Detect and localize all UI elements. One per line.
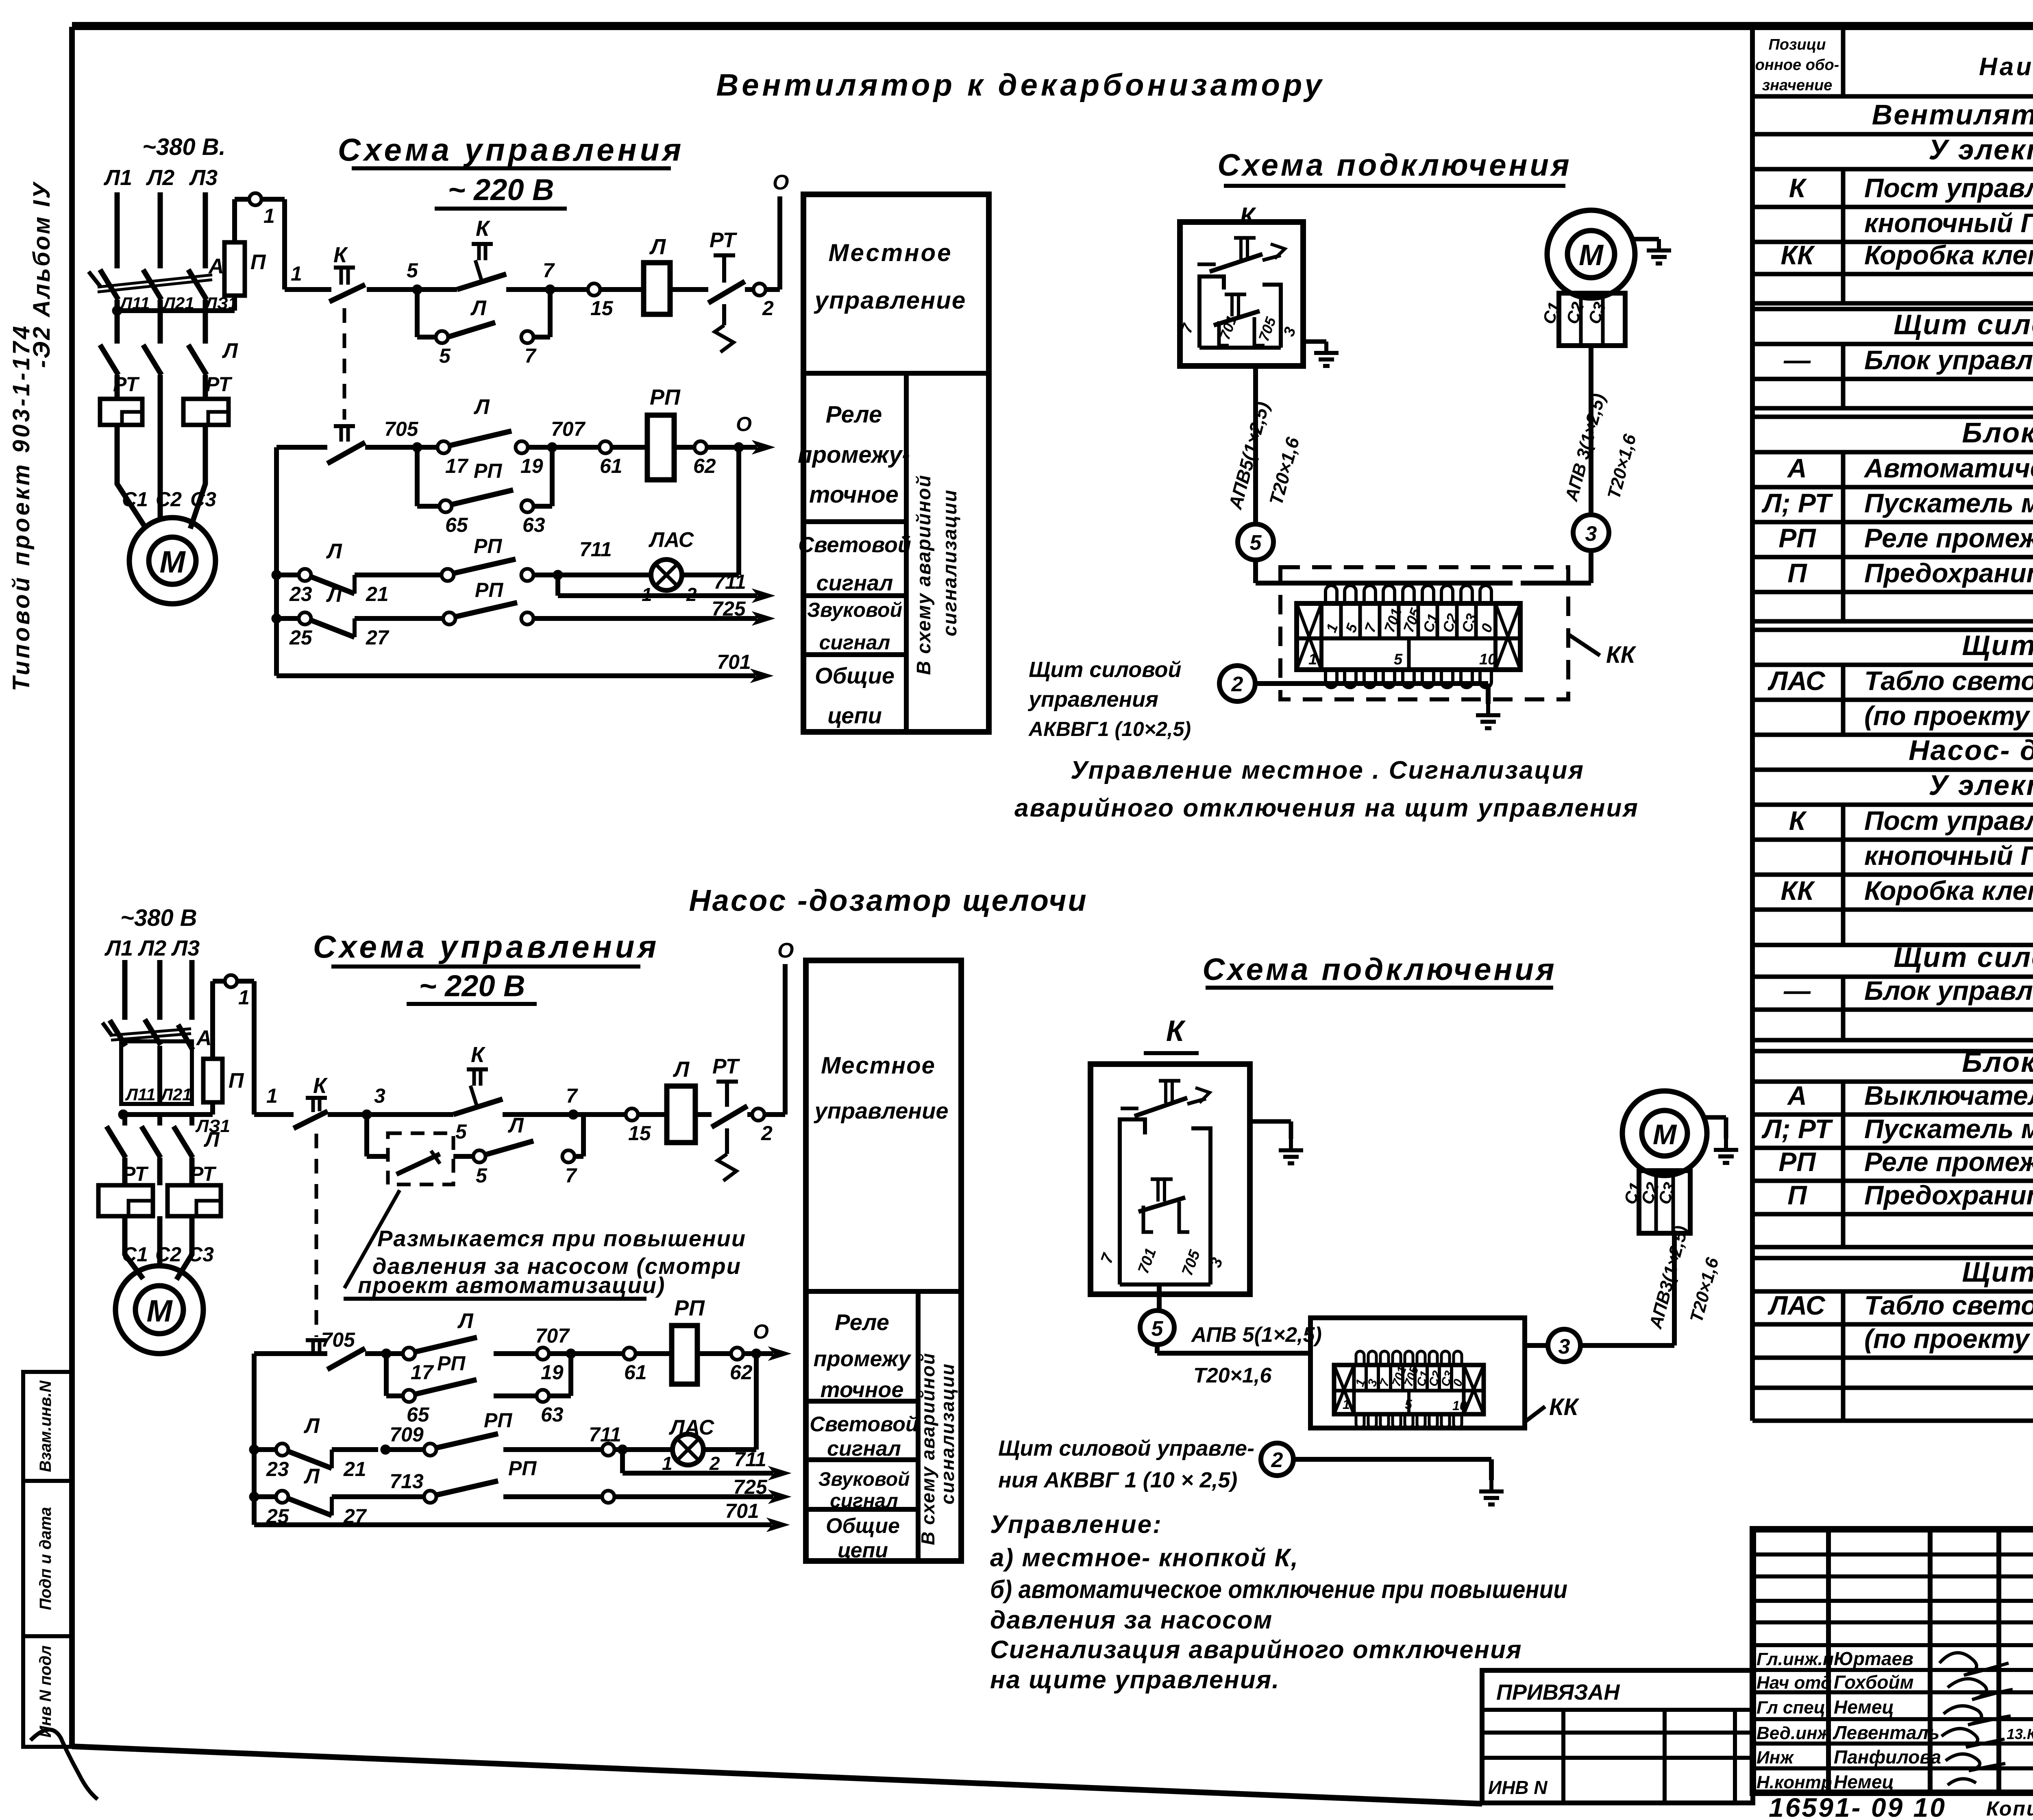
svg-text:~380 В: ~380 В bbox=[120, 905, 197, 931]
svg-text:К: К bbox=[333, 243, 348, 267]
svg-text:В схему аварийной: В схему аварийной bbox=[917, 1352, 938, 1545]
svg-text:Табло световое двухламповое: Табло световое двухламповое bbox=[1864, 1290, 2033, 1320]
svg-text:5: 5 bbox=[1405, 1397, 1413, 1412]
svg-text:РП: РП bbox=[474, 535, 502, 557]
svg-text:Звуковой: Звуковой bbox=[807, 599, 902, 621]
svg-text:значение: значение bbox=[1762, 77, 1833, 94]
svg-text:ЛАС: ЛАС bbox=[1767, 1290, 1826, 1320]
svg-text:5: 5 bbox=[439, 344, 451, 367]
svg-text:Л: Л bbox=[326, 540, 342, 563]
svg-text:23: 23 bbox=[289, 583, 312, 605]
svg-text:ЛАС: ЛАС bbox=[1767, 666, 1826, 696]
svg-text:~ 220 В: ~ 220 В bbox=[419, 969, 525, 1003]
svg-text:промежу-: промежу- bbox=[798, 442, 910, 468]
svg-text:Коробка клеммная У614: Коробка клеммная У614 bbox=[1864, 240, 2033, 270]
svg-text:аварийного отключения на щи: аварийного отключения на щит управления bbox=[1014, 794, 1639, 822]
svg-text:Гл.инж.п: Гл.инж.п bbox=[1757, 1649, 1834, 1669]
svg-text:точное: точное bbox=[809, 481, 899, 508]
svg-text:А: А bbox=[1787, 453, 1807, 483]
svg-text:РТ: РТ bbox=[712, 1055, 740, 1078]
svg-text:Насос -дозатор щелочи: Насос -дозатор щелочи bbox=[689, 884, 1088, 917]
svg-text:Щит силовой управления: Щит силовой управления bbox=[1894, 309, 2033, 340]
svg-text:705: 705 bbox=[384, 418, 419, 440]
svg-text:Копировал Терентьева: Копировал Терентьева bbox=[1986, 1797, 2033, 1820]
svg-text:61: 61 bbox=[600, 455, 623, 477]
svg-text:Вед.инж: Вед.инж bbox=[1757, 1723, 1832, 1743]
svg-text:3: 3 bbox=[1585, 522, 1597, 546]
svg-text:РП: РП bbox=[650, 385, 681, 409]
svg-text:Л3: Л3 bbox=[171, 936, 200, 960]
svg-text:давления за насосом: давления за насосом bbox=[990, 1606, 1273, 1634]
svg-text:РП: РП bbox=[437, 1352, 466, 1375]
svg-text:Юртаев: Юртаев bbox=[1834, 1648, 1913, 1669]
svg-text:Схема управления: Схема управления bbox=[313, 929, 660, 964]
svg-text:О: О bbox=[777, 939, 794, 962]
svg-text:Блок управления: Блок управления bbox=[1962, 417, 2033, 448]
svg-text:У электродвигателя: У электродвигателя bbox=[1929, 769, 2033, 801]
svg-text:А: А bbox=[196, 1026, 212, 1050]
svg-text:Управление:: Управление: bbox=[990, 1511, 1162, 1539]
svg-text:Немец: Немец bbox=[1834, 1771, 1894, 1792]
svg-text:Реле: Реле bbox=[826, 401, 882, 428]
svg-text:Пускатель магнитный: Пускатель магнитный bbox=[1864, 1114, 2033, 1144]
svg-text:П: П bbox=[1787, 1180, 1807, 1210]
svg-text:К: К bbox=[1789, 173, 1807, 203]
svg-text:5: 5 bbox=[1250, 531, 1262, 555]
svg-text:П: П bbox=[250, 250, 266, 274]
svg-text:КК: КК bbox=[1606, 642, 1637, 668]
svg-text:Л: Л bbox=[303, 1465, 320, 1488]
svg-text:5: 5 bbox=[455, 1120, 467, 1143]
svg-text:5: 5 bbox=[407, 259, 418, 282]
svg-text:О: О bbox=[753, 1320, 769, 1343]
svg-text:Л: Л bbox=[470, 296, 487, 320]
svg-text:1: 1 bbox=[291, 262, 302, 285]
svg-text:Взам.инв.N: Взам.инв.N bbox=[37, 1380, 54, 1472]
svg-text:сигнал: сигнал bbox=[830, 1490, 898, 1512]
svg-text:А: А bbox=[208, 255, 224, 278]
svg-text:РТ: РТ bbox=[206, 373, 233, 396]
svg-text:Л: Л bbox=[649, 235, 666, 259]
svg-text:В схему аварийной: В схему аварийной bbox=[913, 475, 935, 675]
svg-text:К: К bbox=[476, 216, 491, 241]
svg-text:Схема управления: Схема управления bbox=[338, 132, 685, 168]
svg-text:2: 2 bbox=[761, 1122, 773, 1145]
svg-text:Звуковой: Звуковой bbox=[818, 1469, 910, 1490]
svg-text:Вентилятор к декарбонизатору: Вентилятор к декарбонизатору bbox=[1872, 99, 2033, 131]
svg-text:М: М bbox=[1653, 1119, 1677, 1150]
svg-text:С2: С2 bbox=[156, 488, 182, 511]
svg-text:3: 3 bbox=[1558, 1335, 1570, 1358]
svg-text:Л1: Л1 bbox=[103, 165, 132, 190]
svg-text:Предохранитель: Предохранитель bbox=[1864, 558, 2033, 588]
svg-text:5: 5 bbox=[1151, 1317, 1164, 1341]
svg-text:(по проекту автоматизации): (по проекту автоматизации) bbox=[1864, 1324, 2033, 1354]
svg-text:Инж: Инж bbox=[1757, 1748, 1794, 1768]
svg-text:Вентилятор к декарбонизато: Вентилятор к декарбонизатору bbox=[716, 68, 1325, 102]
svg-text:Блок управления: Блок управления bbox=[1864, 345, 2033, 375]
svg-text:управления: управления bbox=[1027, 687, 1158, 712]
svg-text:Л21: Л21 bbox=[160, 1085, 192, 1104]
svg-text:Гл спец: Гл спец bbox=[1757, 1698, 1825, 1718]
svg-text:Гохбойм: Гохбойм bbox=[1834, 1672, 1914, 1693]
svg-text:(по проекту автоматизации): (по проекту автоматизации) bbox=[1864, 701, 2033, 731]
svg-text:сигнал: сигнал bbox=[819, 631, 890, 654]
svg-text:Т20×1,6: Т20×1,6 bbox=[1193, 1364, 1272, 1387]
svg-text:К: К bbox=[1166, 1015, 1186, 1047]
svg-text:точное: точное bbox=[821, 1378, 904, 1402]
svg-text:П: П bbox=[1787, 558, 1807, 588]
svg-text:7: 7 bbox=[566, 1084, 578, 1107]
svg-text:1: 1 bbox=[263, 205, 275, 227]
svg-text:711: 711 bbox=[734, 1448, 766, 1471]
svg-text:Л: Л bbox=[457, 1309, 474, 1333]
svg-text:711: 711 bbox=[579, 538, 612, 561]
svg-text:РТ: РТ bbox=[122, 1163, 149, 1185]
svg-text:Местное: Местное bbox=[828, 239, 952, 266]
svg-text:Щит силовой: Щит силовой bbox=[1029, 657, 1182, 682]
svg-text:~ 220 В: ~ 220 В bbox=[448, 173, 554, 207]
svg-text:Л: Л bbox=[203, 1128, 220, 1152]
svg-text:кнопочный ПКЕ 212-2УЗ: кнопочный ПКЕ 212-2УЗ bbox=[1864, 840, 2033, 871]
svg-text:К: К bbox=[1240, 202, 1257, 230]
svg-text:1: 1 bbox=[238, 986, 250, 1009]
svg-text:кнопочный ПКЕ-212-2УЗ: кнопочный ПКЕ-212-2УЗ bbox=[1864, 208, 2033, 238]
svg-text:АПВ 5(1×2,5): АПВ 5(1×2,5) bbox=[1191, 1323, 1322, 1347]
svg-text:23: 23 bbox=[266, 1458, 289, 1480]
svg-text:5: 5 bbox=[1394, 651, 1403, 668]
svg-text:Реле промежуточное: Реле промежуточное bbox=[1864, 1147, 2033, 1177]
svg-text:Выключатель автоматический: Выключатель автоматический bbox=[1864, 1080, 2033, 1110]
svg-text:на щите управления.: на щите управления. bbox=[990, 1666, 1280, 1694]
svg-text:1: 1 bbox=[266, 1084, 278, 1107]
svg-text:Схема подключения: Схема подключения bbox=[1217, 148, 1572, 183]
svg-text:О: О bbox=[773, 171, 789, 194]
svg-text:РП: РП bbox=[1778, 523, 1816, 553]
svg-text:Управление местное . Сигнализ: Управление местное . Сигнализация bbox=[1071, 756, 1585, 784]
svg-text:сигнализации: сигнализации bbox=[937, 1363, 958, 1504]
svg-text:РТ: РТ bbox=[190, 1163, 217, 1185]
svg-text:К: К bbox=[471, 1043, 486, 1067]
svg-text:~380 В.: ~380 В. bbox=[142, 134, 226, 160]
svg-text:707: 707 bbox=[535, 1324, 570, 1347]
svg-text:Л: Л bbox=[326, 583, 342, 607]
svg-text:707: 707 bbox=[551, 418, 586, 440]
svg-text:Общие: Общие bbox=[826, 1514, 900, 1538]
svg-text:управление: управление bbox=[814, 1098, 949, 1123]
svg-text:Л; РТ: Л; РТ bbox=[1761, 1114, 1833, 1144]
svg-text:Л2: Л2 bbox=[146, 165, 174, 190]
svg-text:сигнализации: сигнализации bbox=[939, 489, 961, 636]
svg-text:61: 61 bbox=[624, 1361, 647, 1384]
svg-text:Л1: Л1 bbox=[104, 936, 133, 960]
svg-text:7: 7 bbox=[525, 344, 537, 367]
svg-text:21: 21 bbox=[343, 1458, 366, 1480]
svg-text:Щит управления: Щит управления bbox=[1962, 629, 2033, 661]
svg-text:63: 63 bbox=[522, 514, 545, 536]
svg-text:М: М bbox=[159, 545, 186, 579]
svg-text:1: 1 bbox=[1343, 1397, 1350, 1412]
svg-text:701: 701 bbox=[717, 651, 751, 673]
svg-text:О: О bbox=[736, 413, 752, 435]
svg-text:19: 19 bbox=[520, 455, 543, 477]
svg-text:У электродвигателя: У электродвигателя bbox=[1929, 134, 2033, 165]
svg-text:—: — bbox=[1783, 345, 1811, 375]
svg-text:проект автоматизации): проект автоматизации) bbox=[358, 1272, 666, 1298]
svg-text:Щит силовой управле-: Щит силовой управле- bbox=[998, 1436, 1254, 1461]
svg-text:Л3: Л3 bbox=[189, 165, 218, 190]
svg-text:Щит управления: Щит управления bbox=[1962, 1256, 2033, 1288]
svg-text:7: 7 bbox=[543, 259, 555, 282]
svg-text:62: 62 bbox=[730, 1361, 753, 1384]
svg-text:Л: Л bbox=[222, 339, 238, 363]
svg-text:713: 713 bbox=[390, 1470, 424, 1493]
svg-text:15: 15 bbox=[628, 1122, 651, 1145]
svg-text:Схема подключения: Схема подключения bbox=[1202, 952, 1556, 987]
svg-text:Насос- дозатор щелочи: Насос- дозатор щелочи bbox=[1909, 734, 2033, 766]
svg-text:7: 7 bbox=[565, 1164, 577, 1187]
svg-text:25: 25 bbox=[289, 626, 313, 649]
svg-text:Коробка клеммная У614: Коробка клеммная У614 bbox=[1864, 875, 2033, 906]
svg-text:цепи: цепи bbox=[838, 1539, 888, 1562]
svg-text:3: 3 bbox=[374, 1084, 385, 1107]
svg-text:сигнал: сигнал bbox=[816, 571, 893, 595]
svg-text:ИНВ N: ИНВ N bbox=[1488, 1777, 1548, 1798]
svg-text:63: 63 bbox=[541, 1403, 564, 1426]
svg-text:Л2: Л2 bbox=[137, 936, 166, 960]
svg-text:б) автоматическое отключение: б) автоматическое отключение при повышен… bbox=[990, 1576, 1567, 1604]
svg-text:Немец: Немец bbox=[1834, 1696, 1894, 1718]
svg-text:К: К bbox=[1789, 806, 1807, 836]
svg-text:-Э2 Альбом IУ: -Э2 Альбом IУ bbox=[28, 181, 55, 368]
svg-text:Нач отд: Нач отд bbox=[1757, 1673, 1832, 1693]
svg-text:Предохранитель: Предохранитель bbox=[1864, 1180, 2033, 1210]
svg-text:13.К79: 13.К79 bbox=[2007, 1726, 2033, 1742]
svg-text:КК: КК bbox=[1781, 240, 1815, 270]
svg-text:705: 705 bbox=[321, 1328, 356, 1351]
svg-text:АКВВГ1 (10×2,5): АКВВГ1 (10×2,5) bbox=[1028, 718, 1191, 740]
svg-text:Позици: Позици bbox=[1769, 36, 1826, 53]
svg-text:РП: РП bbox=[1778, 1147, 1816, 1177]
svg-text:Типовой проект 903-1-174: Типовой проект 903-1-174 bbox=[8, 324, 35, 691]
svg-text:а) местное- кнопкой К,: а) местное- кнопкой К, bbox=[990, 1544, 1299, 1572]
svg-text:2: 2 bbox=[1231, 673, 1243, 696]
svg-text:19: 19 bbox=[541, 1361, 564, 1384]
svg-text:Панфилова: Панфилова bbox=[1834, 1746, 1941, 1768]
svg-text:Общие: Общие bbox=[815, 663, 895, 688]
svg-text:5: 5 bbox=[476, 1164, 488, 1187]
svg-text:Л: Л bbox=[507, 1114, 524, 1137]
svg-text:Пускатель магнитный: Пускатель магнитный bbox=[1864, 488, 2033, 518]
svg-text:ния АКВВГ 1 (10 × 2,5): ния АКВВГ 1 (10 × 2,5) bbox=[998, 1468, 1237, 1492]
svg-text:сигнал: сигнал bbox=[827, 1437, 901, 1461]
svg-text:Щит силовой управления: Щит силовой управления bbox=[1894, 941, 2033, 973]
svg-text:Левенталь: Левенталь bbox=[1833, 1722, 1939, 1743]
svg-text:ПРИВЯЗАН: ПРИВЯЗАН bbox=[1496, 1680, 1620, 1705]
svg-text:П: П bbox=[229, 1069, 244, 1093]
svg-text:Л: Л bbox=[473, 395, 490, 419]
svg-text:62: 62 bbox=[693, 455, 716, 477]
svg-text:РП: РП bbox=[508, 1457, 537, 1480]
svg-text:2: 2 bbox=[762, 297, 774, 320]
svg-text:ЛАС: ЛАС bbox=[648, 528, 694, 552]
svg-text:М: М bbox=[1579, 239, 1604, 272]
svg-text:Световой: Световой bbox=[810, 1413, 919, 1436]
svg-text:Наименование: Наименование bbox=[1979, 53, 2033, 81]
svg-text:711: 711 bbox=[589, 1423, 621, 1446]
svg-text:711: 711 bbox=[714, 570, 746, 593]
svg-text:Размыкается при повышении: Размыкается при повышении bbox=[377, 1226, 746, 1251]
svg-text:К: К bbox=[313, 1073, 328, 1098]
svg-text:Местное: Местное bbox=[821, 1052, 936, 1079]
svg-text:Блок управления: Блок управления bbox=[1864, 975, 2033, 1006]
svg-text:Л11: Л11 bbox=[125, 1085, 155, 1104]
svg-text:промежу: промежу bbox=[814, 1347, 912, 1371]
svg-text:65: 65 bbox=[445, 514, 468, 536]
svg-text:17: 17 bbox=[411, 1361, 434, 1384]
svg-text:КК: КК bbox=[1781, 875, 1815, 906]
svg-text:Подп и дата: Подп и дата bbox=[37, 1507, 54, 1610]
svg-text:27: 27 bbox=[366, 626, 390, 649]
svg-text:РТ: РТ bbox=[710, 229, 738, 252]
svg-text:10: 10 bbox=[1479, 651, 1496, 668]
svg-text:709: 709 bbox=[390, 1423, 424, 1446]
svg-text:15: 15 bbox=[590, 297, 614, 320]
svg-text:М: М bbox=[146, 1294, 173, 1328]
svg-text:А: А bbox=[1787, 1080, 1807, 1110]
svg-text:1: 1 bbox=[1308, 651, 1317, 668]
svg-text:Пост управления: Пост управления bbox=[1864, 806, 2033, 836]
svg-text:Л; РТ: Л; РТ bbox=[1761, 488, 1833, 518]
svg-text:Пост управления: Пост управления bbox=[1864, 173, 2033, 203]
svg-text:10: 10 bbox=[1452, 1398, 1467, 1413]
svg-text:РП: РП bbox=[484, 1409, 512, 1432]
svg-text:РП: РП bbox=[674, 1296, 705, 1320]
svg-text:РТ: РТ bbox=[113, 373, 140, 396]
svg-text:2: 2 bbox=[1271, 1448, 1283, 1472]
svg-text:Л: Л bbox=[303, 1414, 320, 1438]
svg-text:17: 17 bbox=[445, 455, 469, 477]
svg-text:Инв N подл: Инв N подл bbox=[37, 1646, 54, 1738]
svg-text:Реле: Реле bbox=[835, 1309, 889, 1335]
svg-text:КК: КК bbox=[1549, 1394, 1580, 1420]
svg-text:онное обо-: онное обо- bbox=[1755, 57, 1839, 74]
svg-text:Автоматический выключатель: Автоматический выключатель bbox=[1863, 453, 2033, 483]
svg-text:РП: РП bbox=[474, 459, 502, 482]
svg-text:Л: Л bbox=[673, 1057, 690, 1082]
svg-text:ЛАС: ЛАС bbox=[668, 1416, 715, 1439]
svg-text:Реле промежуточное: Реле промежуточное bbox=[1864, 523, 2033, 553]
svg-text:65: 65 bbox=[407, 1403, 430, 1426]
svg-text:16591- 09 10: 16591- 09 10 bbox=[1769, 1792, 1946, 1820]
svg-text:цепи: цепи bbox=[827, 703, 882, 728]
svg-text:Табло световое двухламповое: Табло световое двухламповое bbox=[1864, 666, 2033, 696]
svg-text:21: 21 bbox=[366, 583, 389, 605]
svg-text:РП: РП bbox=[475, 579, 503, 601]
svg-text:—: — bbox=[1783, 975, 1811, 1006]
svg-text:Блок управления: Блок управления bbox=[1962, 1046, 2033, 1078]
svg-text:Сигнализация аварийного откл: Сигнализация аварийного отключения bbox=[990, 1636, 1522, 1664]
svg-text:701: 701 bbox=[725, 1500, 759, 1522]
svg-text:Световой: Световой bbox=[798, 533, 911, 557]
svg-text:управление: управление bbox=[814, 287, 966, 314]
svg-text:Н.контр: Н.контр bbox=[1757, 1772, 1832, 1792]
